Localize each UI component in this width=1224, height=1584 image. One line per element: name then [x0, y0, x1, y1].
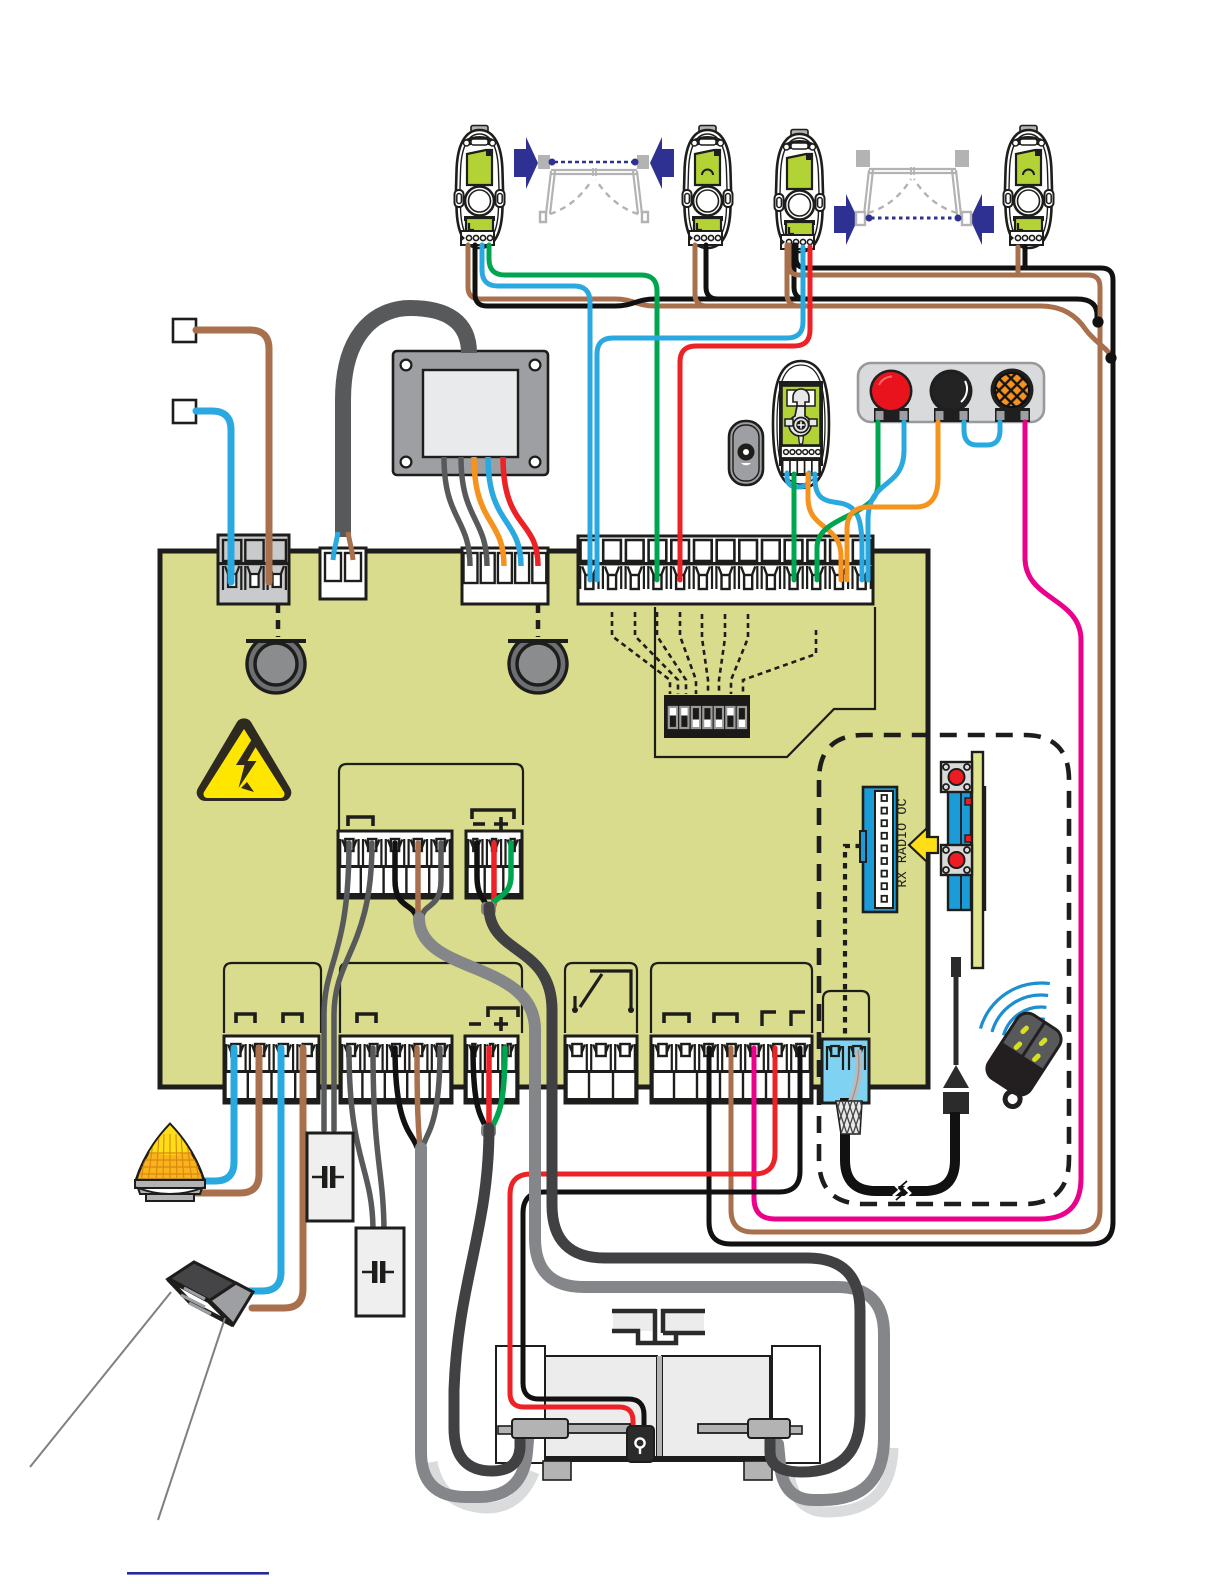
control board PCB [160, 551, 928, 1087]
wire: lamp blue [200, 1048, 234, 1181]
flashing lamp [130, 1122, 210, 1201]
high-voltage warning triangle [197, 718, 292, 801]
power input terminal block (grey) [218, 535, 289, 604]
wire: black button orange [847, 422, 938, 580]
transformer mains cable [343, 308, 469, 537]
board section outline (top-right logic area) [655, 607, 875, 757]
wire: RX2 to TX2 to right run (black) [709, 245, 1113, 1244]
wire: lock device blue [248, 1048, 281, 1291]
M1 aux cable sheath collar [481, 1124, 496, 1137]
outline over lamp/lock block [224, 963, 321, 1033]
junction: black bus to TX2 black [1105, 352, 1116, 363]
minus/plus label (lock out M2) [473, 822, 485, 826]
gate closing diagram (right) [834, 150, 994, 245]
gate overlap detail icon [612, 1309, 705, 1343]
wire: red button green [817, 422, 878, 580]
RX RADIO OC connector J1 [860, 787, 911, 912]
coax braid into antenna block [824, 1101, 876, 1134]
transformer primary 2-pin block [320, 548, 366, 599]
wire: RX2 red [680, 247, 810, 580]
outline around motor-2 terminal group [339, 764, 523, 830]
yellow arrow (plug direction) [909, 828, 938, 862]
actuator M2 (right leaf) [698, 1419, 802, 1438]
relay output terminal block [565, 1036, 637, 1103]
photocell TX1 [683, 126, 733, 249]
dashed link transformer block to fuse F2 [536, 604, 541, 637]
wire: M1 gray into sheath [423, 1048, 440, 1147]
wire: keyswitch blue to strip [815, 474, 862, 580]
receiver programming button 1 [941, 762, 972, 792]
M1 aux cable loop (dark) [454, 1128, 520, 1471]
footer rule [127, 1572, 269, 1575]
motor M1 terminal block [340, 1036, 452, 1103]
radio receiver card [948, 752, 985, 968]
wire: mains brown [196, 330, 269, 582]
outline over command inputs block [651, 963, 812, 1033]
gate opening diagram (left) [514, 137, 674, 222]
black button (stop) [930, 370, 973, 413]
red button [870, 370, 913, 413]
wire: lamp brown [196, 1048, 259, 1193]
lamp & lock terminal block [224, 1036, 319, 1103]
photocell RX1 [455, 126, 505, 249]
M2 aux -/+ terminal block [466, 831, 522, 898]
wire: RX2 blue [597, 247, 803, 580]
dashed plug-in radio region boundary [819, 735, 1069, 1204]
wire: RX1 green [489, 245, 657, 580]
wire: buzzer magenta [754, 422, 1081, 1219]
gate leaves [545, 1356, 770, 1459]
mains cable tails (blue+brown) [333, 532, 353, 560]
photocell RX2 [775, 130, 825, 253]
command input terminal block [651, 1036, 812, 1103]
dashed fan from terminal strip to DIP switch [612, 612, 816, 694]
dash-dot link RX connector to antenna block [845, 846, 861, 1037]
radio waves [980, 983, 1049, 1042]
transformer TR1 [393, 351, 548, 475]
junction: brown bus to TX2 brown [1092, 316, 1103, 327]
M2 motor cable loop (gray) [535, 1160, 884, 1500]
wire: PC TX1 brown drop [695, 245, 707, 306]
wire: M2 brown into sheath [415, 843, 421, 916]
motor cable shadows [432, 1448, 893, 1512]
wire: keyswitch blue jumper [787, 473, 809, 487]
wire: PC RX1 black [475, 245, 1097, 318]
M1 aux -/+ terminal block [465, 1036, 518, 1103]
wire: M1 brown into sheath [417, 1048, 420, 1147]
dashed link power block to fuse F1 [276, 604, 281, 637]
wire: lock black from command block [523, 1048, 800, 1432]
wire: RX2 to TX2 to right run (brown) [731, 245, 1100, 1232]
antenna terminal block (blue) [822, 1039, 869, 1103]
gate posts [496, 1346, 820, 1463]
wire: TX2 brown stub [1016, 247, 1021, 273]
minus/plus label (M1 aux) [469, 1022, 481, 1026]
M2 aux cable sheath collar [481, 902, 496, 915]
DIP switch SW1 [664, 695, 750, 738]
wire: M1 capacitor gray pair [349, 1048, 373, 1228]
M2 aux cable loop (dark) [552, 1160, 860, 1472]
wire: M2 gray into sheath [422, 843, 441, 916]
M2 motor cable upper run (gray) [419, 918, 535, 1160]
key selector switch [773, 361, 829, 488]
outline over motor M1 group [340, 963, 522, 1033]
fuse F2 (round) [508, 641, 568, 693]
coax center wire in antenna block [851, 1050, 859, 1103]
pushbutton panel [858, 363, 1044, 422]
actuator M1 (left leaf) [498, 1419, 630, 1438]
wire: red button blue [868, 422, 904, 580]
bracket glyph over M2 block [348, 817, 373, 826]
wire: TX2 black stub [1023, 247, 1028, 266]
motor M2 terminal block [338, 831, 452, 898]
wire: PC RX2 brown drop [787, 245, 799, 306]
svg-text:RX RADIO OC: RX RADIO OC [896, 798, 911, 887]
wire: M2 black into sheath [395, 843, 416, 916]
fuse F1 (round) [246, 641, 306, 693]
button bases [874, 408, 1030, 422]
capacitor C1 [307, 1133, 353, 1221]
M2 aux cable upper run (dark) [489, 907, 552, 1160]
wire: RX1 blue [482, 245, 590, 580]
M1 motor cable loop (gray) [421, 1148, 529, 1497]
capacitor C2 [356, 1228, 404, 1316]
M2 aux wires into sheath [477, 843, 486, 905]
buzzer (orange grille) [991, 369, 1034, 412]
main low-voltage terminal strip (13 way) [578, 536, 873, 604]
wire: M2 capacitor gray pair [324, 843, 349, 1130]
hand transmitter (remote) [975, 1009, 1066, 1111]
wire: PC RX1 brown [468, 245, 1111, 356]
wire: mains blue [196, 411, 231, 582]
key fob [729, 421, 763, 485]
electric lock on gate [627, 1426, 654, 1462]
wire: M1 black into sheath [395, 1048, 417, 1147]
outline over relay output block [565, 963, 637, 1033]
receiver programming button 2 [941, 845, 972, 875]
antenna coax cable [845, 1098, 955, 1200]
mains terminal N [173, 400, 196, 423]
electric lock (wall) [30, 1262, 253, 1520]
relay contact glyph [572, 971, 634, 1013]
antenna [943, 957, 969, 1114]
wire: PC RX2 black drop [794, 245, 806, 299]
M1 aux wires into sheath [473, 1048, 485, 1126]
transformer secondary wires [444, 457, 538, 566]
wire: keyswitch green [792, 474, 797, 580]
wire: PC TX1 black drop [706, 245, 718, 299]
photocell TX2 [1004, 126, 1054, 249]
wire: lock red from command block [510, 1048, 775, 1432]
outline over antenna connector [823, 991, 869, 1033]
transformer secondary 5-pin block [462, 548, 548, 604]
wire: keyswitch orange [808, 474, 841, 580]
gate feet [543, 1461, 772, 1480]
wire: lock device brown [252, 1048, 303, 1308]
mains terminal L [173, 319, 196, 342]
wire: stop-buzzer blue jumper [964, 422, 1000, 445]
